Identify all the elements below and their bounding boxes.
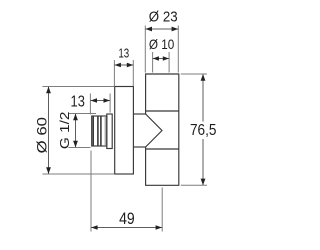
dimension 76,5 line — [202, 74, 204, 185]
dimension G 1/2 label — [57, 112, 72, 150]
dimension 13 left arrows — [91, 98, 110, 103]
dimension Ø10 line — [153, 58, 170, 60]
dimension 13 left extension lines — [90, 94, 110, 115]
dimension 76,5 arrows — [201, 74, 206, 185]
inlet neck bottom edge — [133, 146, 145, 148]
dimension 49 extension lines — [91, 151, 162, 232]
dimension 13 top line — [114, 64, 133, 66]
svg-text:G 1/2: G 1/2 — [57, 112, 72, 150]
dimension 49 label — [119, 210, 135, 228]
dimension Ø60 tick lines — [43, 87, 115, 175]
inlet neck top edge — [133, 113, 145, 115]
dimension 13 top label — [118, 46, 129, 61]
dimension Ø10 label — [149, 36, 175, 52]
svg-text:76,5: 76,5 — [190, 122, 217, 139]
svg-text:Ø 23: Ø 23 — [149, 9, 178, 26]
dimension G 1/2 line — [75, 114, 77, 148]
svg-text:13: 13 — [118, 46, 129, 61]
thread body G1/2 — [92, 116, 107, 146]
svg-text:49: 49 — [119, 210, 135, 228]
dimension 13 top extension lines — [114, 60, 133, 86]
flange ring — [107, 114, 112, 149]
dimension G 1/2 tick lines — [69, 114, 97, 148]
dimension Ø10 arrows — [153, 56, 169, 61]
rosette (design cover) — [115, 87, 134, 175]
bottom cylinder top edge — [146, 148, 179, 150]
dimension 13 left label — [71, 93, 85, 110]
dimension 13 top arrows — [115, 63, 134, 68]
svg-text:Ø 10: Ø 10 — [149, 36, 175, 52]
dimension Ø60 arrows — [46, 87, 51, 174]
dimension 49 line — [91, 227, 162, 229]
dimension Ø60 label — [35, 117, 50, 153]
dimension 49 arrows — [91, 225, 162, 230]
dimension Ø23 extension lines — [145, 26, 178, 73]
dimension Ø60 line — [48, 87, 50, 174]
dimension Ø23 label — [149, 9, 178, 26]
dimension G 1/2 arrows — [73, 114, 78, 148]
svg-text:Ø 60: Ø 60 — [35, 117, 50, 153]
valve cone chevron — [146, 114, 162, 147]
dimension 76,5 extension lines — [181, 74, 207, 185]
dimension Ø10 extension lines — [153, 52, 170, 73]
valve body outline — [146, 74, 179, 185]
handle bottom edge — [146, 110, 179, 112]
svg-text:13: 13 — [71, 93, 85, 110]
thread ridges — [93, 116, 105, 146]
dimension Ø23 arrows — [146, 27, 179, 32]
dimension 76,5 label — [190, 122, 217, 139]
dimension Ø23 line — [145, 28, 178, 30]
dimension 13 left line — [90, 100, 110, 102]
